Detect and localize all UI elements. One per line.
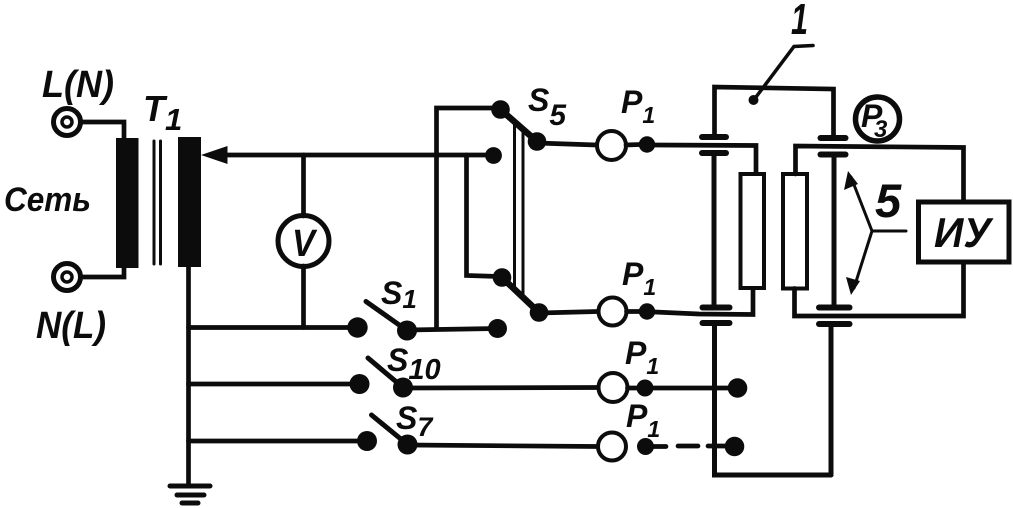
switch S5 upper pole: fixed contact	[491, 100, 510, 119]
wire rail left between caps	[712, 153, 717, 308]
transformer T1 core	[154, 141, 161, 264]
node S1 left contact	[347, 317, 367, 337]
resistor sample 2	[783, 174, 807, 289]
measuring cell 1: top bracket	[715, 87, 834, 138]
svg-text:S7: S7	[396, 400, 434, 442]
svg-text:N(L): N(L)	[36, 305, 106, 347]
node S7 left contact	[357, 431, 377, 451]
node row1	[639, 136, 655, 152]
wire rail right between caps	[832, 155, 837, 308]
node S5 upper pivot	[528, 132, 547, 151]
wire row4 dashed to rail	[653, 444, 726, 449]
block ИУ	[919, 202, 1010, 262]
switch S5 upper blade	[501, 110, 538, 142]
capacitor C-bottom-left plates	[703, 308, 730, 324]
wire rail right below caps to bottom U	[829, 324, 834, 475]
node row4 end	[725, 437, 745, 457]
switch S1 blade	[366, 302, 407, 331]
svg-text:T1: T1	[143, 88, 182, 137]
wire vertical B from wiper line to S5 bottom contact	[467, 155, 500, 277]
svg-text:Р1: Р1	[621, 84, 655, 128]
node S1 pivot	[397, 321, 417, 341]
pointer line from label 1	[755, 46, 814, 100]
wire row2 node to resistor1 bottom lead	[655, 288, 754, 315]
node row3 at lamp	[637, 380, 654, 397]
lamp P1 row3	[599, 373, 628, 402]
node S10 pivot	[393, 378, 413, 398]
svg-text:L(N): L(N)	[42, 64, 114, 106]
transformer T1 secondary winding	[178, 137, 201, 267]
wire row3 from transformer lead to S10	[189, 382, 360, 387]
capacitor C-bottom-right plates	[819, 308, 850, 325]
wire from L terminal to primary top	[82, 122, 125, 139]
lamp P1 row2	[599, 298, 627, 326]
svg-text:Р1: Р1	[625, 335, 659, 379]
wire from N terminal to primary bottom	[82, 266, 125, 277]
wire voltmeter top lead	[301, 155, 306, 216]
lamp P1 row4	[598, 433, 626, 461]
voltmeter V	[278, 216, 329, 267]
terminal N(L)	[54, 264, 81, 291]
label 5 with callout	[844, 171, 906, 295]
node row4 at lamp	[637, 438, 654, 455]
wire resistor2 bottom lead to ИУ bottom	[795, 263, 964, 317]
switch S5 lower blade	[502, 278, 539, 313]
wire resistor2 top lead to ИУ top	[796, 146, 964, 202]
wire lamp2 to node	[627, 309, 641, 314]
switch S10 blade	[368, 358, 403, 388]
svg-text:Р1: Р1	[626, 398, 660, 442]
lamp P1 row1	[597, 131, 626, 160]
wire lamp1 to node	[626, 142, 640, 147]
indicator P3	[856, 97, 900, 143]
node row3 end	[728, 378, 748, 398]
wire S7 to lamp4	[408, 445, 598, 447]
switch S5 lower pole: fixed contact	[493, 268, 512, 287]
node: end of wiper line (S5 upper throw)	[485, 147, 502, 164]
wire row1 from S1 to S5 lower throw	[407, 329, 497, 331]
switch S7 blade	[372, 415, 408, 445]
node S5 lower pivot	[530, 303, 549, 322]
terminal L(N)	[54, 109, 81, 136]
node S10 left contact	[350, 374, 370, 394]
node S5 lower throw / row1 end	[488, 319, 507, 338]
svg-text:S5: S5	[528, 82, 567, 132]
arrow (regulator wiper) into secondary	[201, 146, 493, 164]
svg-text:S1: S1	[381, 275, 417, 314]
node S7 pivot	[398, 435, 418, 455]
wire lamp3 to rail	[628, 386, 738, 391]
node row2	[639, 303, 655, 319]
svg-text:ИУ: ИУ	[934, 209, 994, 256]
wire secondary bottom lead down to ground	[186, 267, 191, 486]
wire row4 from transformer lead to S7	[189, 439, 368, 444]
capacitor C-top-left plates	[702, 137, 726, 153]
svg-text:Сеть: Сеть	[4, 181, 91, 219]
wire row1 node to resistor1 top lead	[654, 145, 756, 174]
resistor sample 1	[741, 174, 765, 288]
wire S5 lower pivot to lamp2	[539, 312, 598, 314]
wire vertical A feeding S5 top contact	[437, 108, 498, 328]
svg-text:1: 1	[791, 0, 808, 44]
svg-text:Р1: Р1	[622, 256, 656, 300]
wire S10 to lamp3	[403, 385, 598, 390]
wire row1 from transformer lead to S1	[189, 325, 358, 330]
switch S5 mechanical link	[515, 121, 524, 298]
wire S5 upper pivot to lamp1	[537, 143, 597, 145]
wire voltmeter bottom lead	[301, 266, 306, 328]
svg-text:3: 3	[874, 116, 888, 143]
capacitor C-top-right plates	[821, 138, 846, 155]
svg-text:V: V	[292, 223, 317, 265]
svg-text:5: 5	[875, 174, 902, 227]
transformer T1 primary winding	[116, 138, 139, 268]
wire rail left below caps to bottom U	[715, 323, 832, 475]
pointer dot	[749, 95, 759, 105]
ground	[170, 486, 210, 503]
